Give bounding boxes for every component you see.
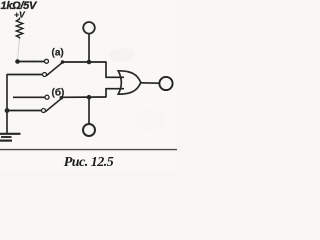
wire gate output bbox=[141, 82, 159, 84]
terminal OUT circle bbox=[159, 77, 172, 90]
switch b pivot dot bbox=[60, 96, 64, 100]
OR gate U1 bbox=[118, 71, 141, 94]
wire switch a to corner bbox=[62, 61, 107, 63]
switch a pivot dot bbox=[61, 60, 65, 64]
wire corner down to gate input 1 bbox=[106, 62, 124, 77]
switch a arm bbox=[46, 62, 63, 76]
ground rail (left vertical) bbox=[6, 74, 8, 134]
wire node B down to terminal bbox=[88, 97, 90, 124]
caption separator line bbox=[0, 149, 177, 151]
switch a bottom contact bbox=[43, 73, 47, 77]
wire to switch a top contact bbox=[18, 61, 45, 63]
wire resistor to node (faint) bbox=[18, 39, 20, 61]
junction dot ground rail / switch b bbox=[5, 108, 10, 113]
switch b arm bbox=[45, 98, 62, 112]
wire to switch b top contact bbox=[13, 96, 45, 98]
resistor R (1kΩ) bbox=[16, 18, 23, 39]
terminal B circle (bottom) bbox=[83, 124, 95, 136]
switch b bottom contact bbox=[42, 109, 46, 113]
node resistor/switch-a junction dot bbox=[15, 59, 20, 64]
svg-text:(а): (а) bbox=[52, 48, 64, 59]
wire ground rail to switch a bottom contact bbox=[7, 74, 42, 76]
terminal A circle (top) bbox=[83, 22, 95, 34]
junction dot node A bbox=[87, 60, 92, 65]
wire node A up to terminal bbox=[88, 34, 90, 62]
wire corner up to gate input 2 bbox=[106, 89, 124, 97]
switch b top contact bbox=[45, 95, 49, 99]
switch a top contact bbox=[45, 59, 49, 63]
junction dot node B bbox=[87, 95, 92, 100]
ground symbol bbox=[0, 134, 21, 141]
svg-text:Рис. 12.5: Рис. 12.5 bbox=[64, 155, 114, 170]
wire switch b to corner bbox=[61, 96, 107, 98]
wire ground rail to switch b bottom contact bbox=[7, 110, 41, 112]
